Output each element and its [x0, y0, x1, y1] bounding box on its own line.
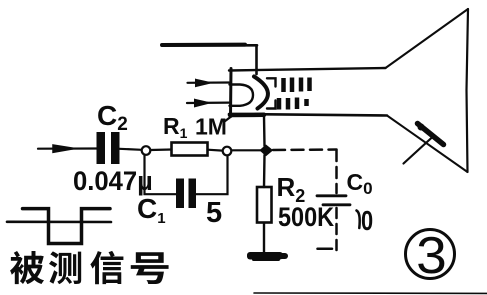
anode bracket: [267, 78, 276, 86]
Chinese caption: bei ce xin hao (signal under test): [10, 251, 169, 284]
input wire left: [38, 147, 97, 149]
char ce: [49, 251, 81, 284]
wire R2 to ground: [263, 223, 265, 253]
CRT tube V1 envelope: neck: [229, 68, 387, 117]
CRT tube V1 funnel and screen: [386, 9, 469, 172]
heater lead upper with arrow: [188, 81, 230, 84]
capacitor C2 plates: [97, 132, 120, 164]
cathode bottom smudge: [230, 113, 264, 118]
capacitor C1 plates: [176, 179, 196, 209]
svg-text:500K: 500K: [278, 203, 335, 233]
wire node B to junction: [232, 149, 262, 151]
grid/anode supply wire (top line): [162, 44, 257, 47]
char hao: [131, 252, 169, 284]
wire: deflection plate lead down to node: [263, 116, 266, 146]
svg-text:5: 5: [206, 197, 222, 229]
wire junction to R2: [263, 155, 266, 187]
cathode (D shape): [230, 85, 254, 106]
heater lead lower with arrow: [187, 101, 229, 104]
square wave symbol: axis: [7, 221, 111, 224]
square wave trace: [23, 209, 111, 244]
beam spot mark on screen: [418, 124, 444, 145]
label 0.047u: [73, 165, 153, 196]
label 500K: [278, 203, 335, 233]
node A terminal circle: [142, 146, 151, 155]
svg-text:3: 3: [416, 226, 447, 284]
deflection plate dashes (lower row): [279, 98, 307, 110]
C1 right wire up to node B: [196, 156, 228, 195]
bottom border line segment: [254, 292, 487, 294]
wire: dashed C0 vertical lower: [335, 208, 338, 251]
label 10 value: [357, 211, 360, 229]
C1 branch: left vertical wire: [145, 155, 177, 194]
wire: dashed to C0: [273, 148, 337, 151]
resistor R1 box: [172, 143, 208, 156]
ground bar: [247, 252, 288, 261]
capacitor C0 plates: [317, 194, 346, 197]
wire C2 to node A: [120, 149, 142, 150]
svg-text:0.047μ: 0.047μ: [73, 165, 153, 196]
figure number circle: [406, 230, 455, 279]
dashed bottom tick: [318, 247, 333, 250]
grid (crescent arc): [254, 77, 268, 109]
node B terminal circle: [223, 147, 232, 156]
wire node A to R1: [151, 148, 172, 151]
svg-text:0: 0: [361, 205, 373, 236]
char bei: [10, 251, 44, 284]
resistor R2 box: [257, 187, 272, 223]
svg-text:1M: 1M: [195, 114, 227, 140]
cathode lead tick: [225, 116, 233, 122]
input arrow: [53, 145, 75, 152]
deflection plate dashes (upper row): [284, 78, 310, 93]
char xin: [90, 251, 123, 284]
junction dot: [261, 146, 273, 156]
wire: dashed C0 vertical upper: [335, 150, 338, 193]
wire R1 to node B: [208, 149, 223, 152]
wire: grid lead vertical: [255, 45, 258, 74]
